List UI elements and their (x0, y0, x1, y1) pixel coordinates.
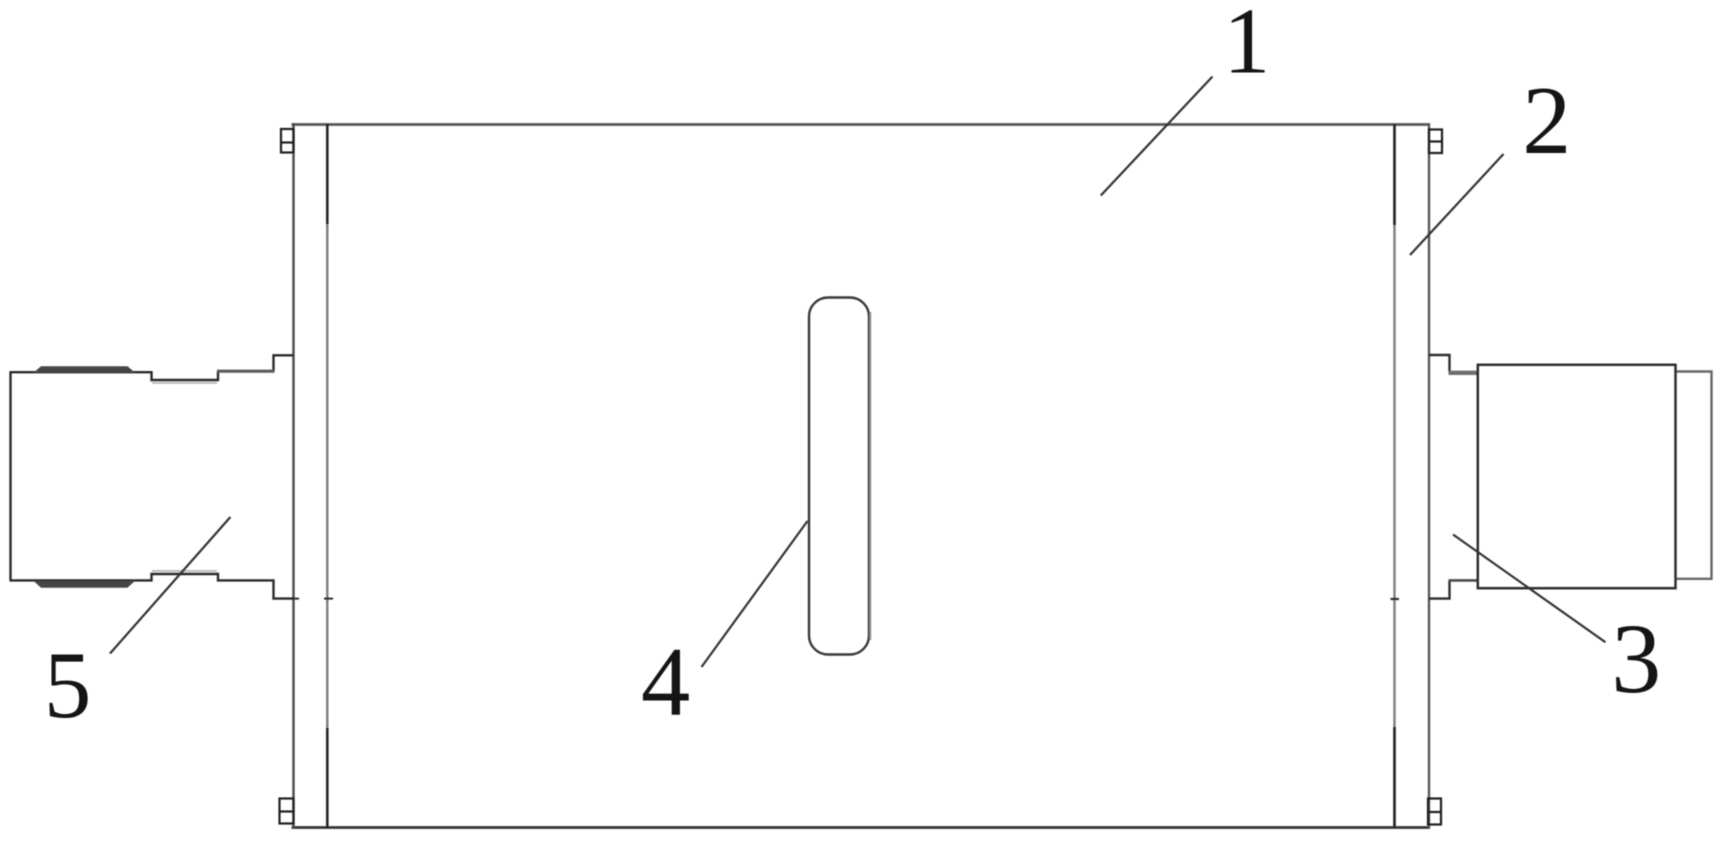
housing body top edge (292, 123, 1431, 126)
svg-text:2: 2 (1522, 67, 1571, 175)
left end plate outer line (292, 123, 294, 829)
leader line 4 (702, 521, 808, 667)
small tick on plate at shaft line (294, 598, 300, 600)
housing left inner edge dark bottom segment (326, 728, 329, 828)
left connector bottom groove back edge (152, 570, 217, 572)
right connector shaft top edge (1449, 371, 1478, 375)
top-right fastener clip (1429, 130, 1442, 154)
right connector shaft bottom edge (1449, 579, 1478, 582)
housing right inner edge dark top segment (1393, 124, 1396, 225)
right connector neck top (1429, 355, 1450, 373)
housing right inner edge (1393, 124, 1395, 828)
right end plate outer line (1428, 123, 1430, 829)
svg-text:4: 4 (641, 628, 690, 737)
central slot (4) capsule (809, 298, 869, 655)
left connector (5) outline (10, 355, 294, 598)
leader line 3 (1453, 535, 1605, 643)
right connector neck bottom (1429, 580, 1450, 598)
svg-text:3: 3 (1611, 603, 1661, 714)
leader line 2 (1410, 154, 1504, 255)
top-left fastener clip (281, 129, 294, 153)
leader line 5 (110, 517, 230, 654)
right connector end cap (1677, 372, 1712, 579)
housing right inner edge dark bottom segment (1393, 727, 1396, 828)
left connector bottom highlight bar (34, 581, 136, 588)
svg-text:1: 1 (1223, 0, 1270, 93)
left connector shaft segment top edge (217, 370, 275, 373)
svg-text:5: 5 (44, 632, 92, 738)
bottom-right fastener clip (1428, 799, 1441, 825)
small tick on body line at shaft line (324, 598, 333, 600)
left connector top highlight bar (34, 366, 136, 372)
housing left inner edge dark top segment (326, 124, 329, 224)
bottom-left fastener clip (280, 799, 294, 824)
housing left inner edge (326, 124, 328, 828)
small tick on right body line at shaft line (1391, 598, 1400, 600)
left connector top groove back edge (152, 382, 217, 384)
slot right edge shading (869, 312, 871, 640)
leader line 1 (1101, 77, 1213, 196)
housing body bottom edge (292, 826, 1431, 829)
right connector body box (3) (1478, 365, 1676, 588)
